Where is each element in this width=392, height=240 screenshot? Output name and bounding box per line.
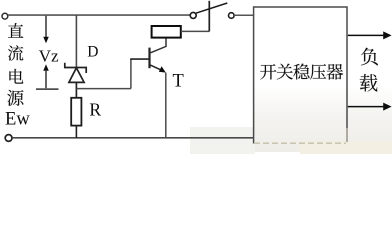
wire: base lead to transistor: [130, 58, 148, 60]
label 直流电源 char 直: [8, 23, 23, 38]
input terminal circle top-left: [2, 13, 8, 19]
Vz arrow up toward reference bar: [43, 64, 49, 70]
switching regulator box U1: [254, 7, 347, 144]
input terminal circle bottom-left: [5, 135, 12, 142]
switch contact circle right: [229, 13, 235, 19]
regulator box faint bottom edge: [254, 142, 346, 144]
svg-text:D: D: [87, 44, 98, 61]
wire: bottom rail from input terminal to regulator box: [12, 137, 253, 139]
wire: diode branch from top rail: [75, 15, 77, 67]
faint scan tint bottom-right: [254, 86, 392, 152]
switch blade: [196, 3, 227, 13]
label 直流电源 char 电: [9, 69, 23, 84]
label 负 (load): [361, 48, 378, 66]
Vz arrow down from top rail: [45, 16, 47, 38]
wire: emitter down to bottom rail: [165, 73, 167, 138]
label 开关稳压器 char 开: [260, 64, 276, 79]
label 开关稳压器 char 稳: [293, 64, 309, 80]
transistor T collector lead: [150, 38, 167, 54]
svg-text:Ew: Ew: [5, 109, 30, 130]
zener diode D cathode bar: [65, 63, 86, 73]
label 直流电源 char 流: [8, 45, 23, 60]
output arrow bottom: [348, 106, 385, 108]
wire: diode anode down to junction and R: [75, 82, 77, 97]
wire: switch to regulator box: [234, 14, 253, 16]
wire: top rail from input terminal to switch: [8, 14, 190, 16]
wire: base riser from junction: [130, 59, 132, 89]
resistor R: [71, 98, 81, 126]
transistor T body bar: [148, 48, 150, 69]
svg-text:R: R: [89, 100, 101, 120]
label 开关稳压器 char 器: [327, 64, 343, 80]
label 直流电源 char 源: [7, 90, 23, 106]
relay coil K: [152, 26, 181, 38]
label 载 (load): [360, 74, 378, 91]
node: D-R junction wire to transistor base: [76, 88, 130, 90]
transistor T emitter lead with arrow: [150, 65, 162, 71]
zener diode D triangle (anode): [69, 68, 84, 83]
label 开关稳压器 char 关: [277, 64, 293, 80]
wire: coil right to switch actuator: [181, 30, 210, 32]
output arrow top: [348, 34, 385, 36]
switch actuator link (vertical): [208, 1, 210, 32]
switch contact circle left: [190, 12, 196, 18]
label 开关稳压器 char 压: [310, 64, 326, 79]
svg-text:T: T: [173, 71, 184, 91]
svg-text:Vz: Vz: [39, 47, 59, 66]
Vz reference bar: [36, 88, 59, 90]
wire: R bottom lead: [75, 126, 77, 138]
